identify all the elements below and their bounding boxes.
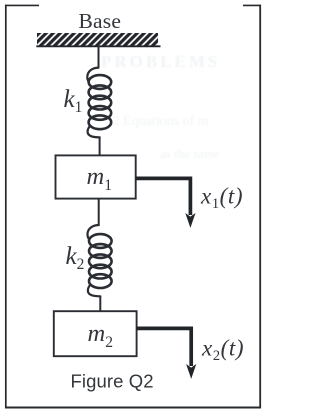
spring k2	[87, 225, 111, 296]
watermark equations line	[108, 114, 209, 129]
svg-text:k1: k1	[64, 86, 83, 116]
watermark PROBLEMS	[101, 52, 220, 71]
wire base to spring k1	[98, 46, 100, 68]
svg-text:Base: Base	[79, 9, 122, 33]
svg-text:Figure Q2: Figure Q2	[71, 370, 154, 391]
wire spring k2 to mass m2	[99, 296, 101, 313]
displacement arrow x2	[137, 328, 197, 379]
watermark same line	[160, 146, 220, 161]
frame bottom border	[5, 407, 261, 409]
fixed base hatch bar	[36, 33, 160, 47]
svg-text:k2: k2	[66, 243, 85, 273]
displacement arrow x1	[136, 178, 196, 228]
svg-text:as the same: as the same	[160, 146, 220, 161]
frame top-left stub	[5, 4, 39, 6]
frame left border	[5, 5, 7, 408]
frame top-right stub	[243, 4, 261, 6]
mass m1	[56, 155, 136, 198]
svg-text:PROBLEMS: PROBLEMS	[101, 52, 220, 71]
frame right border	[259, 5, 261, 408]
wire spring k1 to mass m1	[99, 137, 101, 157]
svg-text:x2(t): x2(t)	[201, 335, 244, 364]
spring k1	[87, 68, 111, 138]
svg-text:x1(t): x1(t)	[200, 183, 243, 212]
svg-text:(2 Equations of m: (2 Equations of m	[108, 114, 209, 129]
mass m2	[54, 311, 137, 356]
wire mass m1 to spring k2	[98, 198, 100, 226]
